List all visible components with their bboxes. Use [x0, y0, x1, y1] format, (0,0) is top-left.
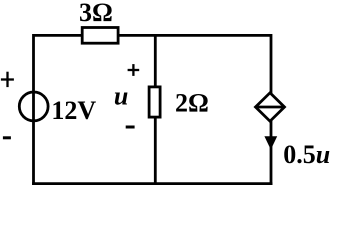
label: 2 ohm value	[175, 89, 209, 118]
wire: left vertical through 12V source	[32, 34, 35, 185]
node voltage u label	[114, 82, 128, 111]
svg-text:0.5u: 0.5u	[283, 140, 330, 169]
svg-text:u: u	[114, 82, 128, 111]
polarity - of u	[126, 126, 135, 129]
polarity - of 12V source	[3, 136, 11, 139]
label: 3 ohm value	[79, 0, 113, 27]
voltage source Us circle (12V)	[19, 92, 48, 121]
label: 0.5u controlled source value	[283, 140, 330, 169]
wire: top horizontal (node between source, 3ohm, and branches)	[34, 34, 272, 37]
svg-text:3Ω: 3Ω	[79, 0, 113, 27]
resistor R2 body (2 ohm)	[149, 87, 160, 117]
current direction arrowhead (downward)	[264, 136, 277, 149]
wire: right vertical through dependent source	[270, 34, 273, 185]
wire: bottom horizontal (reference node)	[32, 182, 272, 185]
label: 12V value	[51, 96, 96, 125]
wire: middle vertical branch through 2 ohm resistor	[154, 34, 157, 185]
resistor R1 body (3 ohm)	[82, 28, 118, 44]
polarity + of 12V source	[1, 72, 14, 87]
svg-text:2Ω: 2Ω	[175, 89, 209, 118]
dependent current source diamond (0.5u)	[256, 93, 285, 121]
svg-text:12V: 12V	[51, 96, 96, 125]
polarity + of u	[128, 64, 140, 76]
